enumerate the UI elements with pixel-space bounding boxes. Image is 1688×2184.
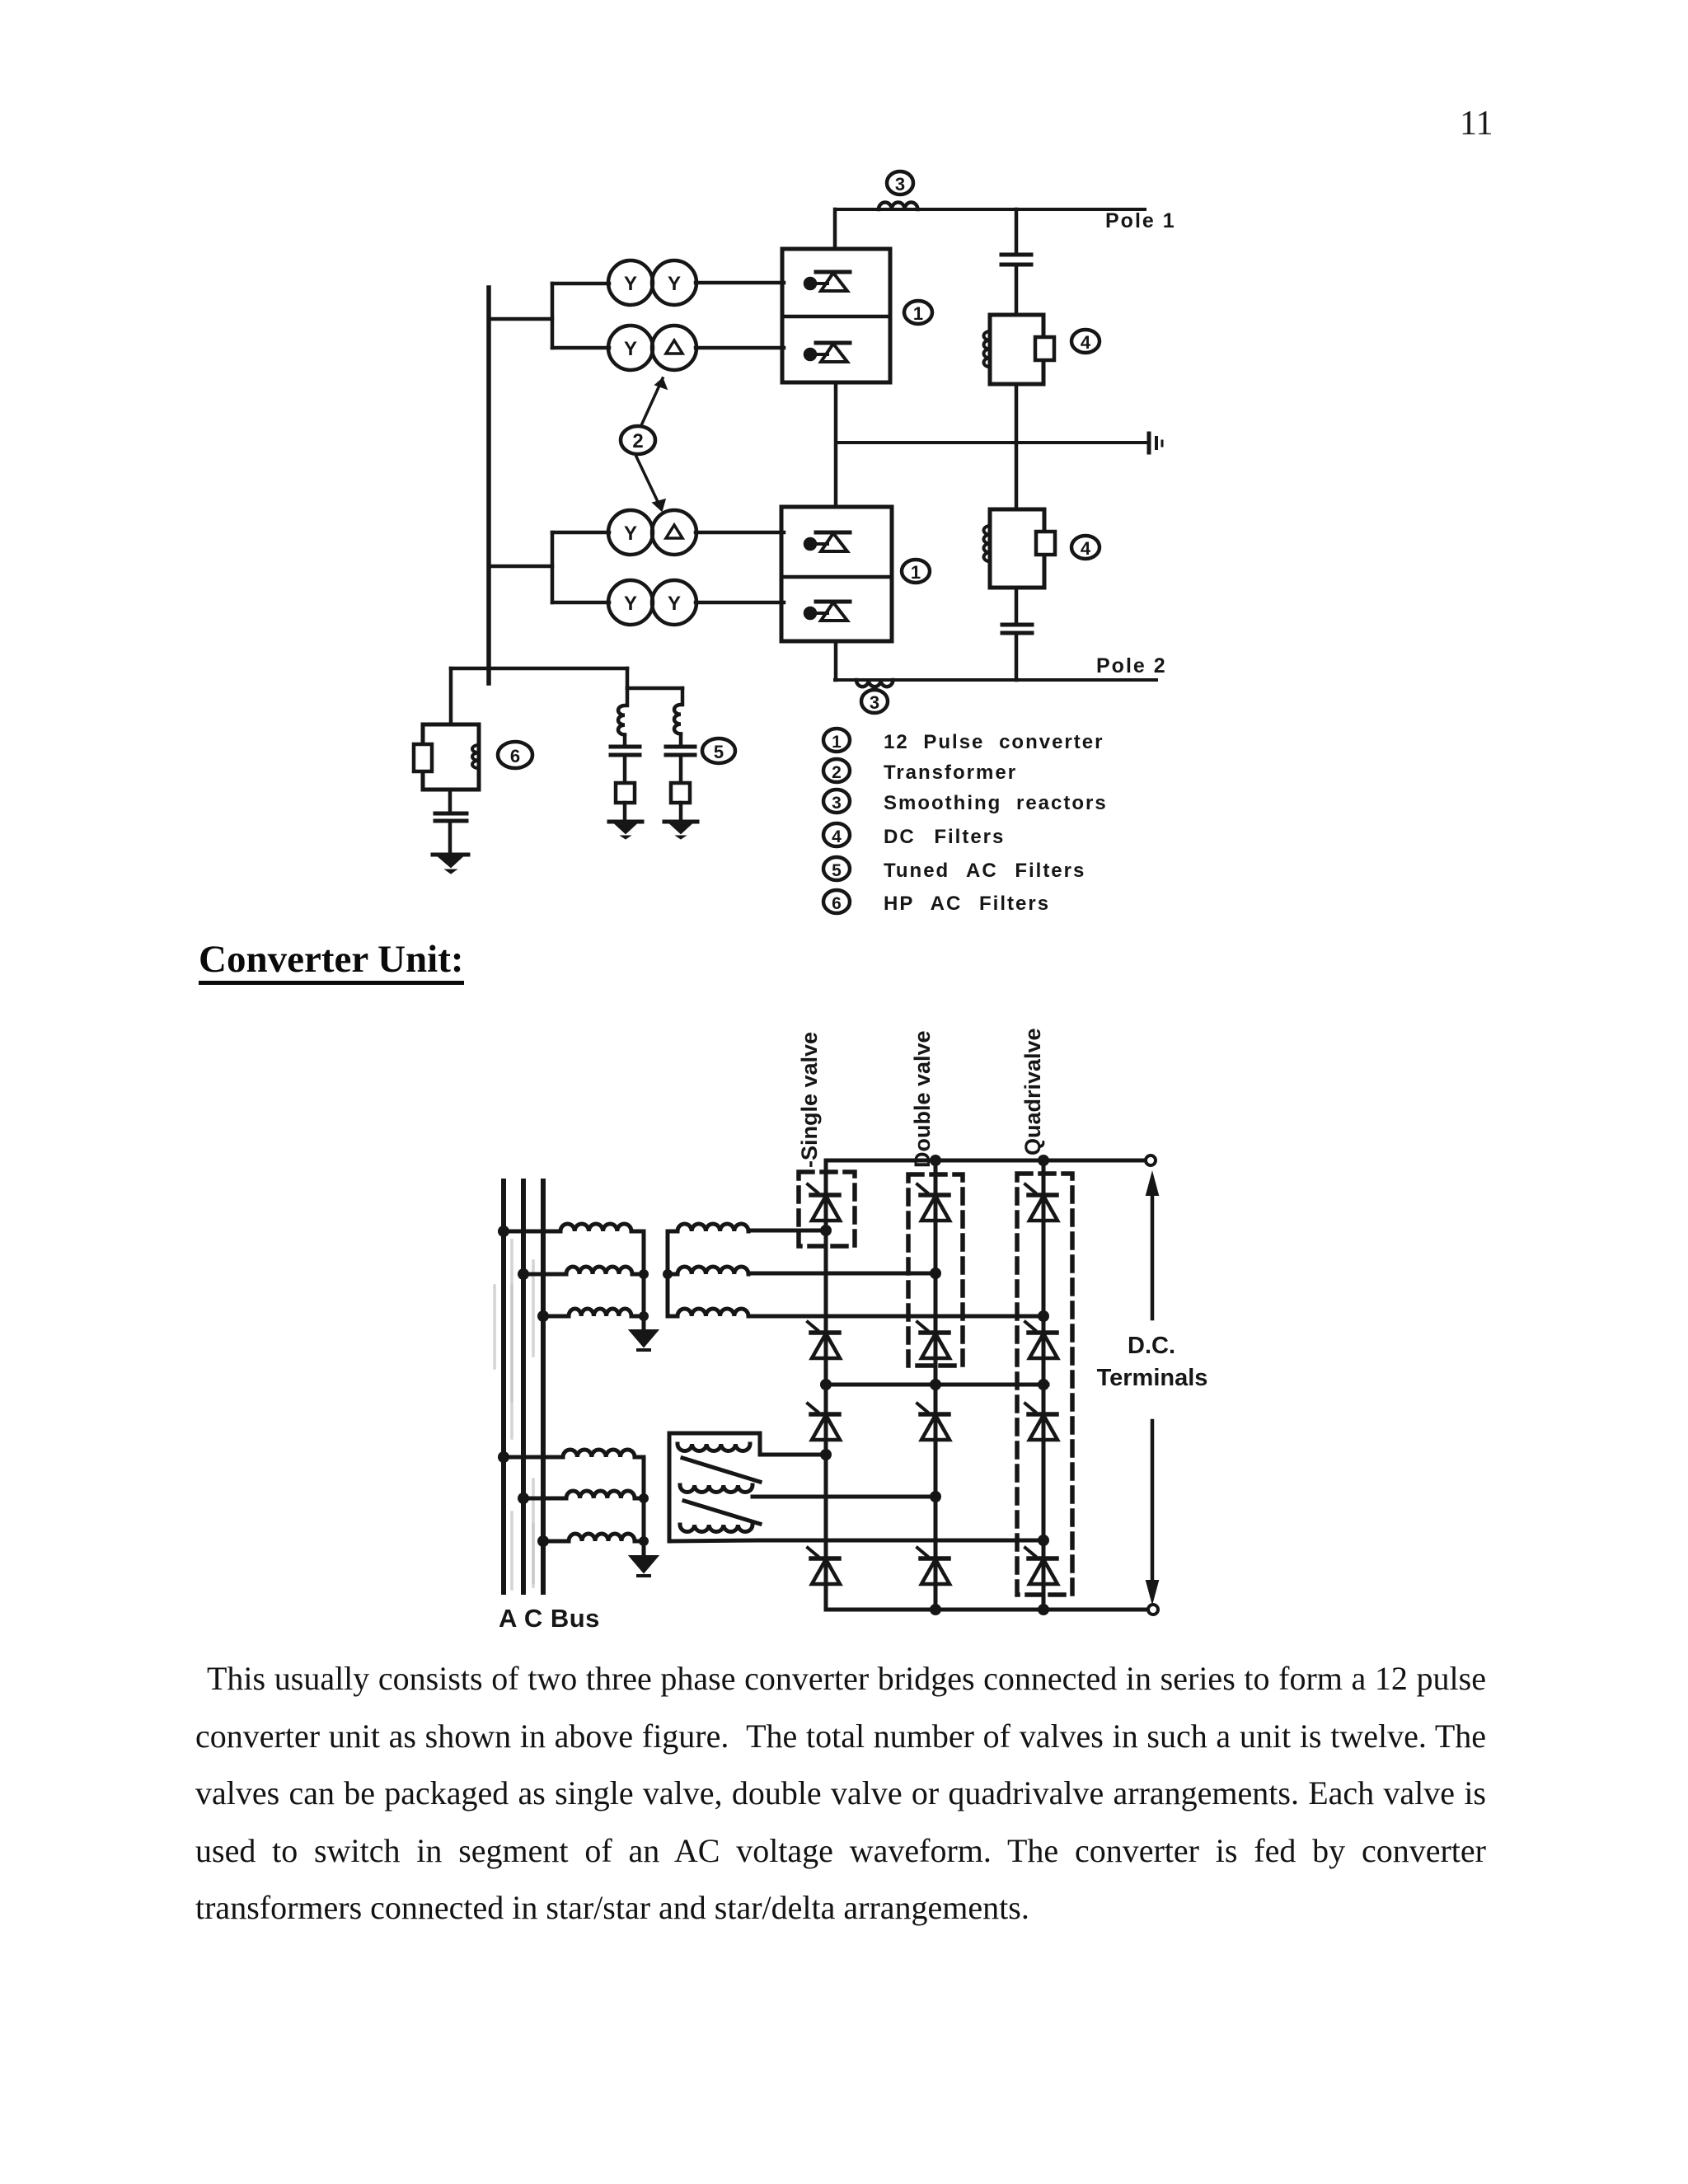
wire DC bottom rail [826, 1604, 1147, 1615]
svg-text:Transformer: Transformer [884, 762, 1017, 784]
svg-text:Y: Y [624, 593, 637, 615]
thyristor valve V2 col1 [808, 1322, 840, 1358]
wire DC terminal upper with arrow [1146, 1174, 1158, 1319]
thyristor valve V8 col2 [917, 1548, 949, 1584]
svg-text:3: 3 [832, 794, 842, 813]
transformer TA primary winding phase a [498, 1224, 644, 1237]
node feed c1 [1038, 1310, 1049, 1322]
svg-text:6: 6 [832, 894, 842, 913]
ground TA star point [630, 1330, 658, 1350]
wire U1 top to pole1 line [833, 209, 837, 249]
wire F2 to capacitor C2 [1015, 588, 1019, 624]
svg-text:4: 4 [1081, 332, 1091, 353]
transformer TD delta winding phase a [678, 1444, 750, 1451]
HP AC filter F6 (R parallel L) [414, 724, 479, 790]
transformer TC primary winding phase b [518, 1491, 644, 1504]
svg-text:1: 1 [911, 562, 921, 583]
svg-text:DC Filters: DC Filters [884, 826, 1005, 848]
svg-text:Y: Y [624, 523, 637, 545]
label circle 4 at F1 [1071, 330, 1100, 353]
node feed c2 [1038, 1535, 1049, 1546]
legend row 1 [823, 729, 1104, 753]
thyristor valve V4 col1 [808, 1548, 840, 1584]
wire DC mid rail [820, 1379, 1049, 1390]
legend row 6 [823, 890, 1050, 915]
leader arrow from label 2 to T3 [636, 457, 665, 511]
label circle 3 at L1 [887, 171, 913, 194]
thyristor valve V1 col1 [808, 1184, 840, 1221]
node feed a1 [820, 1225, 832, 1236]
wire T4 primary lead [552, 601, 609, 605]
tuned AC filter branch 2 [666, 688, 695, 821]
wire TA star point [639, 1231, 649, 1329]
label circle 4 at F2 [1071, 536, 1100, 559]
thyristor valve V9 col3 [1025, 1184, 1057, 1221]
smoothing reactor L2 coil [856, 680, 893, 687]
converter U2 box (12 pulse converter, pole 2) [781, 507, 892, 641]
svg-text:3: 3 [870, 692, 879, 713]
thyristor valve V7 col2 [917, 1404, 949, 1440]
transformer TA primary winding phase b [518, 1267, 644, 1280]
quadrivalve dashed enclosure [1017, 1174, 1072, 1595]
thyristor valve V11 col3 [1025, 1404, 1057, 1440]
wire TD output phase a [760, 1453, 826, 1457]
wire valve column 1 [824, 1160, 828, 1610]
wire C6 to ground [448, 821, 452, 854]
transformer TD delta diagonal 2 [684, 1501, 760, 1524]
wire DC filter F2 drop [1015, 443, 1019, 509]
wire TC star point [639, 1457, 649, 1554]
svg-text:Pole 1: Pole 1 [1105, 209, 1176, 232]
ground TC star point [630, 1556, 658, 1576]
wire pole1 down to capacitor C1 [1015, 209, 1019, 254]
label circle 3 at L2 [861, 690, 888, 713]
AC bus phase line c [541, 1181, 546, 1592]
svg-text:6: 6 [510, 746, 520, 766]
node feed a2 [820, 1449, 832, 1460]
double valve dashed enclosure [908, 1174, 963, 1366]
svg-text:Double valve: Double valve [910, 1030, 935, 1168]
label D.C. Terminals [1097, 1333, 1208, 1391]
thyristor valve V3 col1 [808, 1404, 840, 1440]
label circle 5 [702, 738, 735, 763]
svg-text:12 Pulse converter: 12 Pulse converter [884, 731, 1104, 753]
transformer T3 (Y-Delta) [608, 510, 696, 555]
thyristor valve V5 col2 [917, 1184, 949, 1221]
wire HP filter drop [449, 668, 453, 724]
transformer TB valve winding phase a [668, 1224, 826, 1231]
node DC terminal bottom [1148, 1605, 1158, 1615]
thyristor valve V12 col3 [1025, 1548, 1057, 1584]
wire TD output phase b [753, 1495, 935, 1499]
wire pole 2 line [835, 678, 1156, 682]
wire T1 secondary lead [696, 281, 784, 285]
node feed b2 [930, 1491, 941, 1502]
DC filter F2 (box with coil and resistor) [984, 509, 1055, 588]
svg-text:1: 1 [913, 303, 923, 324]
wire U1 bottom to U2 top [834, 382, 838, 507]
svg-text:Smoothing reactors: Smoothing reactors [884, 792, 1108, 814]
leader arrow from label 2 to T2 [642, 378, 667, 424]
wire AC filter header [451, 667, 627, 671]
thyristor symbol U2 upper [805, 532, 850, 551]
ground (tuned filter 1) [609, 822, 642, 839]
svg-text:5: 5 [832, 861, 842, 880]
transformer TC primary winding phase a [498, 1450, 644, 1463]
wire electrode line [836, 441, 1148, 444]
wire valve column 3 [1042, 1160, 1046, 1610]
wire pole 1 line [835, 208, 1145, 211]
transformer TB valve winding phase c [668, 1309, 1043, 1316]
svg-text:A C Bus: A C Bus [499, 1604, 600, 1633]
svg-text:Terminals: Terminals [1097, 1365, 1208, 1391]
transformer T1 (Y-Y) [608, 260, 696, 305]
wire AC bus vertical (fig1) [486, 288, 491, 683]
svg-text:2: 2 [832, 763, 842, 782]
legend row 5 [823, 857, 1085, 882]
svg-text:4: 4 [1081, 538, 1091, 559]
capacitor C1 [1001, 255, 1031, 265]
svg-text:Y: Y [668, 273, 681, 295]
capacitor C2 [1002, 625, 1032, 633]
svg-text:Pole 2: Pole 2 [1096, 654, 1167, 677]
svg-text:2: 2 [632, 430, 643, 452]
wire F1 to electrode line [1015, 384, 1019, 443]
svg-text:Tuned AC Filters: Tuned AC Filters [884, 860, 1085, 882]
svg-text:5: 5 [714, 742, 724, 762]
svg-text:Y: Y [668, 593, 681, 615]
wire TD output phase c [669, 1540, 1043, 1541]
wire T3 secondary lead [696, 531, 784, 535]
svg-text:1: 1 [832, 733, 842, 752]
thyristor valve V10 col3 [1025, 1322, 1057, 1358]
wire DC top rail [826, 1155, 1146, 1166]
label circle 2 (Transformer) [621, 426, 655, 454]
transformer T2 (Y-Delta) [608, 326, 696, 370]
svg-text:Y: Y [624, 338, 637, 360]
thyristor symbol U1 lower [805, 343, 850, 362]
transformer TB valve winding phase b [668, 1267, 935, 1274]
svg-text:Quadrivalve: Quadrivalve [1020, 1028, 1045, 1155]
tuned AC filter branch 1 [611, 688, 640, 821]
wire valve column 2 [934, 1160, 938, 1610]
svg-text:3: 3 [895, 174, 905, 194]
svg-text:D.C.: D.C. [1128, 1333, 1175, 1359]
DC filter F1 (box with coil and resistor) [984, 315, 1054, 384]
transformer TD delta winding phase b [680, 1485, 753, 1493]
wire DC terminal lower with arrow [1146, 1421, 1158, 1602]
legend row 3 [823, 790, 1108, 814]
wire T3 primary lead [552, 531, 609, 535]
wire T4 secondary lead [696, 601, 784, 605]
transformer T4 (Y-Y) [608, 580, 696, 625]
wire F6 to capacitor C6 [448, 790, 452, 813]
transformer TC primary winding phase c [537, 1534, 644, 1547]
transformer TD delta diagonal 1 [682, 1458, 760, 1482]
svg-text:HP AC Filters: HP AC Filters [884, 893, 1050, 915]
wire bracket upper [551, 284, 555, 348]
capacitor C6 [435, 813, 467, 821]
ground (HP filter) [433, 855, 468, 874]
wire C2 to pole2 line [1015, 633, 1019, 680]
wire bus stub upper [489, 317, 552, 321]
label circle 1 at U1 [904, 301, 932, 324]
svg-text:-Single valve: -Single valve [797, 1032, 822, 1168]
thyristor symbol U1 upper [805, 272, 850, 291]
ground (tuned filter 2) [664, 822, 697, 839]
label circle 1 at U2 [902, 560, 930, 583]
AC bus phase line b [521, 1181, 526, 1592]
wire tuned filter header [627, 687, 682, 691]
converter U1 box (12 pulse converter, pole 1) [782, 249, 890, 382]
svg-text:Y: Y [624, 273, 637, 295]
wire bus stub lower [489, 565, 552, 569]
scan smudge [495, 1240, 533, 1589]
single valve dashed enclosure [799, 1172, 855, 1246]
transformer TD delta winding outline [669, 1433, 760, 1541]
wire C1 to DC filter F1 [1015, 265, 1019, 315]
legend row 2 [823, 759, 1017, 784]
transformer TD delta winding phase c [680, 1525, 753, 1532]
node DC terminal top [1146, 1155, 1156, 1165]
svg-text:4: 4 [832, 827, 842, 846]
wire TB star neutral [663, 1231, 673, 1316]
wire T2 primary lead [552, 346, 609, 350]
ground electrode symbol [1149, 434, 1162, 452]
wire T1 primary lead [552, 282, 609, 286]
wire tuned filter header drop [626, 668, 630, 688]
legend row 4 [823, 823, 1005, 848]
wire T2 secondary lead [696, 346, 784, 350]
node feed b1 [930, 1268, 941, 1279]
wire bracket lower [551, 532, 555, 602]
thyristor symbol U2 lower [805, 602, 850, 621]
label circle 6 [498, 742, 532, 768]
smoothing reactor L1 coil [879, 202, 917, 209]
AC bus phase line a [501, 1181, 506, 1592]
transformer TA primary winding phase c [537, 1309, 644, 1322]
thyristor valve V6 col2 [917, 1322, 949, 1358]
wire U2 bottom to pole2 line [834, 641, 838, 680]
